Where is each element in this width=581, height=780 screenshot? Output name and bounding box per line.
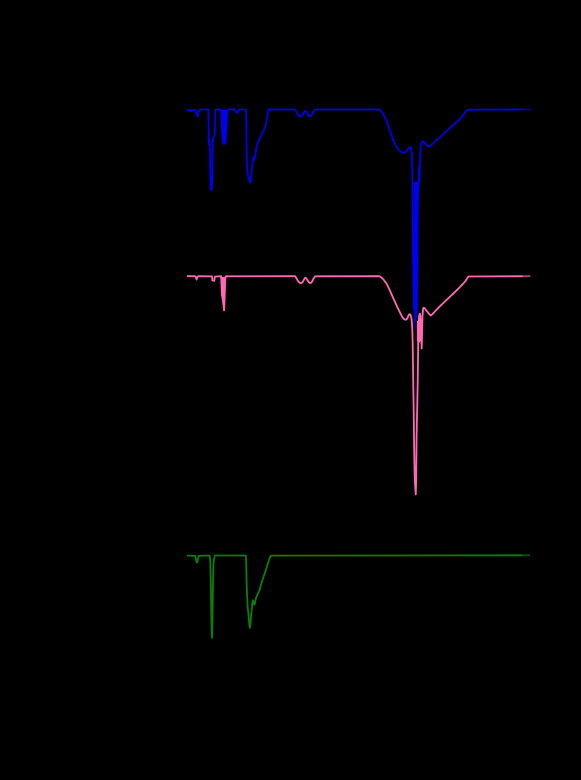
pink IR spectrum trace <box>187 276 531 494</box>
blue deep needle (filled) <box>414 182 417 329</box>
pink needle top-right mass <box>417 321 421 343</box>
blue peak2 solid block <box>222 110 227 144</box>
line end fade (blue) <box>523 108 531 111</box>
blue IR spectrum trace <box>187 109 531 310</box>
line end fade (green) <box>522 554 530 557</box>
line end fade (pink) <box>523 275 531 278</box>
green IR spectrum trace <box>187 555 530 638</box>
pink spike 222 solid column <box>222 277 226 310</box>
